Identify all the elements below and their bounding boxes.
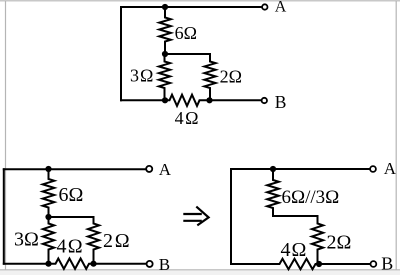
svg-text:4Ω: 4Ω bbox=[57, 236, 84, 258]
terminal B circuit2 bbox=[147, 261, 153, 267]
resistor 6ohm circuit1 bbox=[159, 7, 171, 54]
junction: circuit2 middle node bbox=[45, 214, 51, 220]
svg-text:B: B bbox=[275, 92, 287, 112]
terminal A circuit1 bbox=[262, 4, 267, 9]
terminal A circuit2 bbox=[146, 166, 152, 172]
wire: circuit2 middle horizontal node wire bbox=[49, 216, 94, 218]
junction: circuit1 bottom-right node bbox=[206, 97, 212, 103]
resistor 2ohm circuit3 bbox=[312, 216, 323, 264]
wire: circuit2 left vertical bbox=[3, 169, 5, 263]
wire: circuit1 top horizontal to terminal A bbox=[121, 6, 262, 8]
wire: circuit3 middle horizontal node wire bbox=[273, 215, 318, 217]
wire: circuit1 bottom horizontal right segment to terminal B bbox=[210, 99, 262, 101]
resistor 2ohm circuit1 bbox=[204, 54, 215, 100]
resistor 6ohm parallel 3ohm circuit3 bbox=[267, 169, 279, 216]
svg-text:B: B bbox=[381, 254, 393, 274]
junction: circuit3 bottom node bbox=[316, 261, 322, 267]
terminal A circuit3 bbox=[370, 166, 376, 172]
svg-text:3Ω: 3Ω bbox=[130, 65, 154, 85]
svg-text:A: A bbox=[384, 159, 397, 178]
wire: circuit1 bottom horizontal left segment bbox=[121, 99, 165, 101]
arrow implies bbox=[183, 207, 208, 226]
svg-text:6Ω//3Ω: 6Ω//3Ω bbox=[282, 187, 340, 208]
svg-text:3Ω: 3Ω bbox=[14, 229, 39, 251]
wire: circuit2 bottom horizontal left segment bbox=[4, 263, 49, 265]
wire: circuit1 middle horizontal node wire bbox=[165, 53, 210, 55]
svg-text:A: A bbox=[159, 160, 172, 179]
wire: circuit2 top horizontal to terminal A bbox=[4, 168, 146, 170]
wire: circuit3 top horizontal to terminal A bbox=[231, 168, 369, 170]
resistor 3ohm circuit1 bbox=[159, 54, 170, 100]
terminal B circuit3 bbox=[371, 261, 377, 267]
resistor 3ohm circuit2 bbox=[43, 217, 54, 264]
svg-text:2Ω: 2Ω bbox=[220, 66, 242, 86]
svg-text:2Ω: 2Ω bbox=[103, 230, 131, 252]
wire: circuit1 left vertical bbox=[120, 7, 122, 100]
junction: circuit1 middle node bbox=[162, 51, 168, 57]
svg-text:A: A bbox=[275, 0, 287, 16]
svg-text:B: B bbox=[159, 255, 170, 274]
svg-text:4Ω: 4Ω bbox=[175, 108, 200, 128]
resistor 4ohm circuit3 bbox=[275, 259, 319, 269]
junction: circuit2 bottom-right node bbox=[90, 261, 96, 267]
junction: circuit1 top node bbox=[162, 4, 168, 10]
frame bottom strip bbox=[0, 271, 400, 275]
wire: circuit3 bottom horizontal left segment bbox=[231, 263, 276, 265]
junction: circuit2 bottom-left node bbox=[45, 261, 51, 267]
resistor 4ohm circuit1 bbox=[165, 95, 210, 106]
resistor 6ohm circuit2 bbox=[43, 169, 55, 217]
svg-text:4Ω: 4Ω bbox=[281, 239, 308, 261]
wire: circuit3 bottom horizontal right segment to terminal B bbox=[319, 263, 370, 265]
resistor 2ohm circuit2 bbox=[88, 217, 99, 264]
wire: circuit3 left vertical bbox=[230, 169, 232, 264]
svg-text:6Ω: 6Ω bbox=[59, 184, 84, 206]
wire: circuit2 bottom horizontal right segment to terminal B bbox=[94, 263, 147, 265]
junction: circuit1 bottom-left node bbox=[162, 97, 168, 103]
resistor 4ohm circuit2 bbox=[49, 259, 94, 269]
terminal B circuit1 bbox=[262, 98, 267, 103]
junction: circuit2 top node bbox=[45, 166, 51, 172]
svg-text:2Ω: 2Ω bbox=[327, 232, 352, 254]
junction: circuit3 top node bbox=[270, 166, 276, 172]
svg-text:6Ω: 6Ω bbox=[175, 23, 197, 43]
